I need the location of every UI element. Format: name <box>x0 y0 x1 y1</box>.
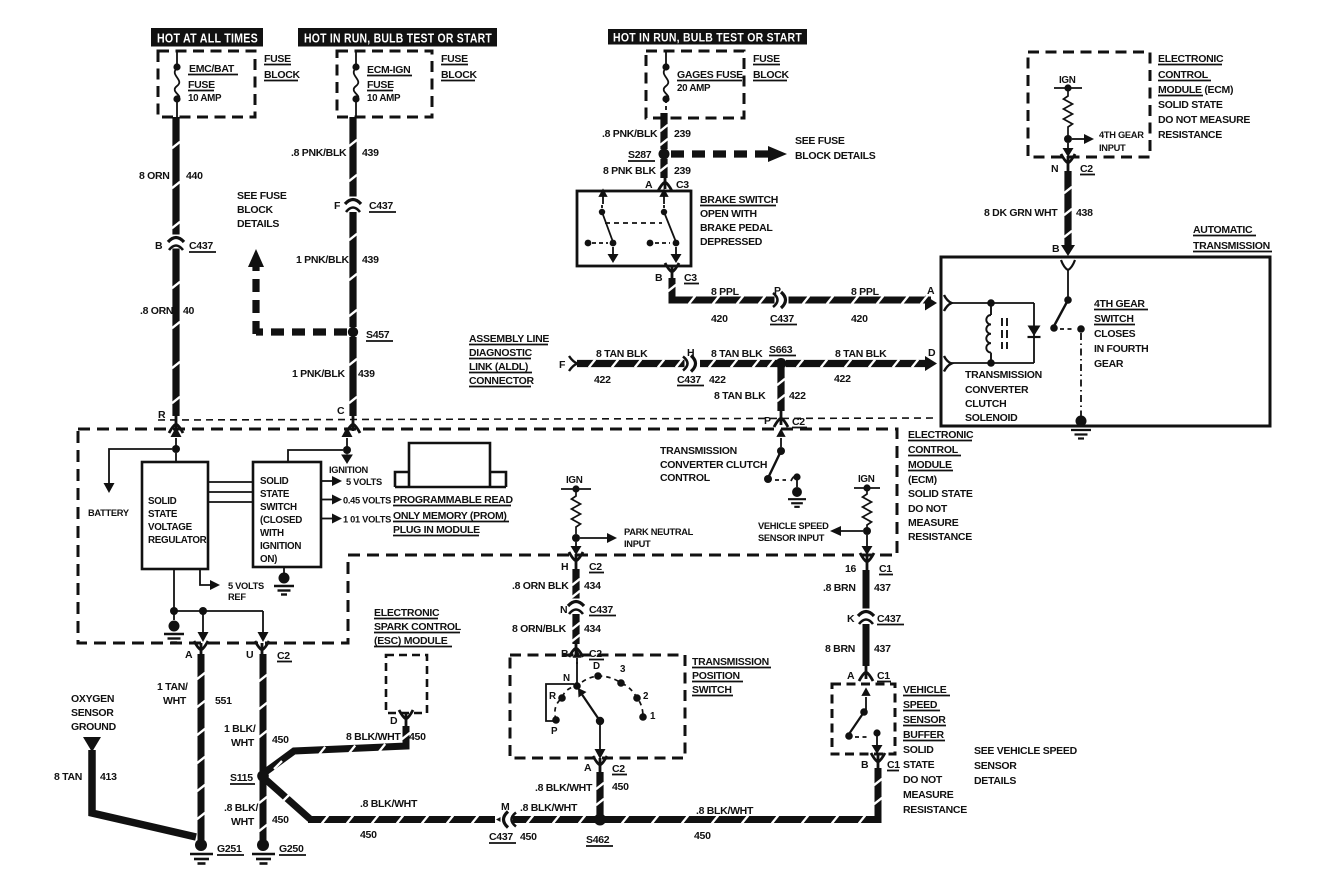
resistor (4th gear pull-up) <box>1064 88 1073 136</box>
wire 450 bottom run right <box>604 768 878 820</box>
svg-text:TRANSMISSION: TRANSMISSION <box>660 445 737 457</box>
fuse block 1 dashed box <box>158 51 255 117</box>
svg-text:TRANSMISSION: TRANSMISSION <box>965 369 1042 381</box>
svg-text:GEAR: GEAR <box>1094 358 1124 370</box>
svg-text:IGN: IGN <box>1059 75 1076 86</box>
svg-text:DETAILS: DETAILS <box>237 218 279 230</box>
svg-text:CONTROL: CONTROL <box>1158 69 1209 81</box>
svg-text:HOT AT ALL TIMES: HOT AT ALL TIMES <box>157 32 258 46</box>
svg-text:IN FOURTH: IN FOURTH <box>1094 343 1148 355</box>
output arrow 1.01 volts <box>321 518 334 520</box>
svg-text:239: 239 <box>674 128 691 140</box>
svg-text:WHT: WHT <box>163 695 187 707</box>
fuse block 3 dashed box <box>646 51 744 118</box>
svg-text:439: 439 <box>362 254 379 266</box>
svg-text:CLUTCH: CLUTCH <box>965 398 1006 410</box>
svg-text:PARK NEUTRAL: PARK NEUTRAL <box>624 527 694 537</box>
wire 439 col2 lower <box>349 337 356 416</box>
connector C437 pin H on wire 422 <box>683 356 699 372</box>
svg-text:CONVERTER: CONVERTER <box>965 384 1029 396</box>
svg-text:440: 440 <box>186 170 203 182</box>
wire 551 1 TAN/WHT <box>198 654 205 840</box>
svg-text:POSITION: POSITION <box>692 670 740 682</box>
svg-text:C1: C1 <box>879 563 892 575</box>
svg-text:C437: C437 <box>589 604 613 616</box>
svg-text:SWITCH: SWITCH <box>1094 313 1134 325</box>
svg-text:P: P <box>551 726 558 737</box>
header bar HOT AT ALL TIMES <box>151 28 263 47</box>
svg-text:FUSE: FUSE <box>264 53 291 65</box>
svg-text:U: U <box>246 649 253 661</box>
svg-text:SOLENOID: SOLENOID <box>965 412 1018 424</box>
wire 239 from gages fuse <box>660 113 667 149</box>
svg-text:A: A <box>645 179 653 191</box>
svg-text:BLOCK DETAILS: BLOCK DETAILS <box>795 150 876 162</box>
automatic transmission box <box>941 257 1270 426</box>
svg-text:422: 422 <box>594 374 611 386</box>
wire 422 vertical from S663 <box>777 368 784 411</box>
svg-text:VEHICLE SPEED: VEHICLE SPEED <box>758 521 829 531</box>
splice S287 <box>659 149 670 160</box>
wire hatch marks <box>172 125 1072 831</box>
svg-text:C437: C437 <box>189 240 213 252</box>
TPS entry arrow <box>576 658 578 664</box>
svg-text:STATE: STATE <box>903 759 935 771</box>
svg-text:1: 1 <box>650 711 656 722</box>
svg-text:MEASURE: MEASURE <box>908 517 959 529</box>
svg-text:BLOCK: BLOCK <box>237 204 274 216</box>
wire 413 8 TAN <box>92 750 196 837</box>
brake switch left pole <box>592 196 613 258</box>
wire to A and C2 pins <box>174 610 263 612</box>
svg-text:420: 420 <box>851 313 868 325</box>
svg-text:10 AMP: 10 AMP <box>367 93 401 104</box>
wire 420 8 PPL <box>672 278 931 300</box>
svg-text:450: 450 <box>520 831 537 843</box>
svg-text:ELECTRONIC: ELECTRONIC <box>908 429 974 441</box>
fuse ECM-IGN <box>354 51 359 117</box>
P-N bracket wire <box>546 684 574 721</box>
wire 450 1 BLK/WHT from C2 <box>260 654 267 840</box>
svg-text:SENSOR: SENSOR <box>71 707 114 719</box>
svg-text:.8 ORN: .8 ORN <box>140 305 173 317</box>
connector C437 pin N <box>568 599 584 615</box>
wires regulator to switch <box>208 482 253 502</box>
svg-text:EMC/BAT: EMC/BAT <box>189 63 235 75</box>
connector C437 pin B on wire 440 <box>168 235 184 251</box>
svg-text:R: R <box>549 691 556 702</box>
svg-text:G250: G250 <box>279 843 304 855</box>
svg-text:HOT IN RUN, BULB TEST OR START: HOT IN RUN, BULB TEST OR START <box>304 32 492 46</box>
svg-text:450: 450 <box>409 731 426 743</box>
svg-text:B: B <box>655 272 663 284</box>
voltage regulator box <box>142 462 208 569</box>
svg-text:S462: S462 <box>586 834 610 846</box>
wire 437 lower 8 BRN <box>863 624 870 666</box>
node R entry arrow <box>175 438 177 448</box>
svg-text:B: B <box>861 759 869 771</box>
svg-text:DIAGNOSTIC: DIAGNOSTIC <box>469 347 533 359</box>
splice S663 <box>776 358 787 369</box>
svg-text:OXYGEN: OXYGEN <box>71 693 114 705</box>
svg-text:WHT: WHT <box>231 816 255 828</box>
svg-text:FUSE: FUSE <box>367 79 394 91</box>
B entry terminal inside box <box>1061 260 1075 270</box>
svg-text:SWITCH: SWITCH <box>260 502 297 513</box>
svg-text:A: A <box>584 762 592 774</box>
splice S115 <box>257 770 269 782</box>
svg-text:IGNITION: IGNITION <box>329 465 369 475</box>
svg-text:422: 422 <box>834 373 851 385</box>
wire 438 8 DK GRN WHT <box>1064 171 1071 248</box>
svg-text:CONTROL: CONTROL <box>660 472 711 484</box>
fuse GAGES <box>664 51 669 110</box>
svg-text:439: 439 <box>358 368 375 380</box>
svg-text:P: P <box>764 415 771 427</box>
svg-text:8 BRN: 8 BRN <box>825 643 855 655</box>
svg-text:N: N <box>563 673 570 684</box>
svg-text:B: B <box>155 240 163 252</box>
wire 450 bottom run left <box>308 816 495 823</box>
solenoid coil <box>986 305 991 361</box>
wire 422 8 TAN BLK mid <box>700 360 777 367</box>
svg-text:BLOCK: BLOCK <box>753 69 790 81</box>
svg-text:F: F <box>334 200 341 212</box>
brake switch box <box>577 191 691 266</box>
svg-text:1 PNK/BLK: 1 PNK/BLK <box>296 254 349 266</box>
svg-text:C1: C1 <box>877 670 890 682</box>
wire 439 col2 upper <box>349 117 356 199</box>
resistor (park/neutral pull-up) <box>572 489 581 534</box>
wire 439 col2 mid <box>349 212 356 327</box>
svg-text:(CLOSED: (CLOSED <box>260 515 302 526</box>
wire 434 lower 8 ORN/BLK <box>572 614 579 644</box>
svg-text:DO NOT: DO NOT <box>908 503 948 515</box>
svg-text:B: B <box>1052 243 1060 255</box>
svg-text:G251: G251 <box>217 843 242 855</box>
arrow down to N pin <box>1067 143 1069 150</box>
ECM dashed outline <box>78 429 897 643</box>
svg-text:DEPRESSED: DEPRESSED <box>700 236 763 248</box>
splice S462 <box>594 814 606 826</box>
svg-text:437: 437 <box>874 643 891 655</box>
svg-text:RESISTANCE: RESISTANCE <box>908 531 972 543</box>
connector C437 pin M with arrow <box>496 813 508 826</box>
connector C437 pin F <box>345 197 361 213</box>
svg-text:4TH GEAR: 4TH GEAR <box>1099 130 1144 140</box>
svg-text:N: N <box>560 604 567 616</box>
output arrow 0.45 volts <box>321 499 334 501</box>
svg-text:C437: C437 <box>877 613 901 625</box>
connector C437 pin P on wire 420 <box>773 292 789 308</box>
svg-text:434: 434 <box>584 623 601 635</box>
TPS contacts <box>573 682 581 690</box>
TPS rotor <box>596 717 604 725</box>
svg-text:434: 434 <box>584 580 601 592</box>
svg-text:.8 BLK/WHT: .8 BLK/WHT <box>696 805 754 817</box>
header bar 3 HOT IN RUN <box>608 29 807 45</box>
svg-text:4TH GEAR: 4TH GEAR <box>1094 298 1145 310</box>
svg-text:K: K <box>847 613 855 625</box>
svg-text:SOLID: SOLID <box>903 744 934 756</box>
wire 422 8 TAN BLK left <box>577 360 687 367</box>
svg-text:MODULE (ECM): MODULE (ECM) <box>1158 84 1233 96</box>
svg-text:BUFFER: BUFFER <box>903 729 944 741</box>
svg-text:C2: C2 <box>612 763 625 775</box>
svg-text:WHT: WHT <box>231 737 255 749</box>
svg-text:AUTOMATIC: AUTOMATIC <box>1193 224 1253 236</box>
svg-text:REF: REF <box>228 592 246 602</box>
svg-text:551: 551 <box>215 695 232 707</box>
svg-text:422: 422 <box>709 374 726 386</box>
svg-text:D: D <box>390 715 398 727</box>
svg-text:C2: C2 <box>277 650 290 662</box>
svg-text:450: 450 <box>272 734 289 746</box>
svg-text:.8 BRN: .8 BRN <box>823 582 856 594</box>
connector C437 pin K <box>858 609 874 625</box>
svg-text:IGN: IGN <box>566 475 583 486</box>
TCC solenoid <box>951 302 1034 304</box>
transmission position switch box <box>510 655 685 758</box>
svg-text:ECM-IGN: ECM-IGN <box>367 64 410 76</box>
arrow park neutral input <box>580 537 608 539</box>
svg-text:.8 ORN BLK: .8 ORN BLK <box>512 580 569 592</box>
wire 450 from ESC to S115 <box>264 726 406 773</box>
svg-text:SOLID: SOLID <box>148 496 177 507</box>
wire 440 8 ORN vertical <box>172 117 179 416</box>
svg-text:S115: S115 <box>230 772 253 784</box>
wire 239 lower <box>660 159 667 178</box>
svg-text:MEASURE: MEASURE <box>903 789 954 801</box>
wire 422 8 TAN BLK right <box>786 360 925 367</box>
svg-text:PROGRAMMABLE READ: PROGRAMMABLE READ <box>393 494 513 506</box>
regulator ground stub <box>173 569 175 611</box>
VSS buffer switch <box>865 697 867 712</box>
svg-text:C3: C3 <box>676 179 689 191</box>
svg-text:8 PNK BLK: 8 PNK BLK <box>603 165 656 177</box>
svg-text:C437: C437 <box>489 831 513 843</box>
svg-text:SOLID STATE: SOLID STATE <box>1158 99 1223 111</box>
arrow down to 16 pin <box>866 535 868 549</box>
svg-text:A: A <box>927 285 935 297</box>
svg-text:H: H <box>687 347 694 359</box>
svg-text:REGULATOR: REGULATOR <box>148 535 207 546</box>
arrow vehicle speed sensor input <box>840 530 863 532</box>
svg-text:INPUT: INPUT <box>1099 143 1126 153</box>
svg-text:8 TAN BLK: 8 TAN BLK <box>596 348 648 360</box>
svg-text:BLOCK: BLOCK <box>264 69 301 81</box>
svg-text:1 TAN/: 1 TAN/ <box>157 681 188 693</box>
svg-text:8 PPL: 8 PPL <box>851 286 880 298</box>
svg-text:ELECTRONIC: ELECTRONIC <box>374 607 440 619</box>
4th gear switch to ground dash-dot wire <box>1080 333 1082 416</box>
switch box ground <box>283 567 285 573</box>
arrow down to H pin <box>575 542 577 549</box>
svg-text:8 PPL: 8 PPL <box>711 286 740 298</box>
svg-text:C3: C3 <box>684 272 697 284</box>
svg-text:TRANSMISSION: TRANSMISSION <box>692 656 769 668</box>
solenoid core lines <box>1002 318 1007 349</box>
svg-text:VEHICLE: VEHICLE <box>903 684 947 696</box>
svg-text:D: D <box>593 661 600 672</box>
svg-text:420: 420 <box>711 313 728 325</box>
svg-text:A: A <box>847 670 855 682</box>
svg-text:2: 2 <box>643 691 649 702</box>
svg-text:N: N <box>1051 163 1058 175</box>
svg-text:INPUT: INPUT <box>624 539 651 549</box>
svg-text:8 TAN: 8 TAN <box>54 771 82 783</box>
svg-text:439: 439 <box>362 147 379 159</box>
svg-text:.8 BLK/WHT: .8 BLK/WHT <box>535 782 593 794</box>
svg-text:BRAKE PEDAL: BRAKE PEDAL <box>700 222 773 234</box>
svg-text:TRANSMISSION: TRANSMISSION <box>1193 240 1270 252</box>
svg-text:8 ORN/BLK: 8 ORN/BLK <box>512 623 567 635</box>
svg-text:5 VOLTS: 5 VOLTS <box>228 581 264 591</box>
splice S457 <box>348 327 358 337</box>
wire to N contact <box>576 662 578 684</box>
svg-text:437: 437 <box>874 582 891 594</box>
solid state switch box <box>253 462 321 567</box>
TPS contact arc dashed <box>555 676 643 720</box>
svg-text:.8 PNK/BLK: .8 PNK/BLK <box>602 128 658 140</box>
svg-text:C437: C437 <box>369 200 393 212</box>
regulator 5 volts ref stub <box>200 569 212 585</box>
svg-text:.8 BLK/WHT: .8 BLK/WHT <box>360 798 418 810</box>
svg-text:DO NOT: DO NOT <box>903 774 943 786</box>
resistor (VSS pull-up) <box>863 488 872 530</box>
svg-text:CONVERTER CLUTCH: CONVERTER CLUTCH <box>660 459 767 471</box>
svg-text:C437: C437 <box>770 313 794 325</box>
svg-text:3: 3 <box>620 664 626 675</box>
svg-text:ELECTRONIC: ELECTRONIC <box>1158 53 1224 65</box>
svg-text:C1: C1 <box>887 759 900 771</box>
wire 450 below TPS <box>596 772 603 816</box>
rotor output wire <box>599 721 601 752</box>
svg-text:SEE FUSE: SEE FUSE <box>237 190 287 202</box>
svg-text:C437: C437 <box>677 374 701 386</box>
svg-text:FUSE: FUSE <box>441 53 468 65</box>
svg-text:ASSEMBLY LINE: ASSEMBLY LINE <box>469 333 549 345</box>
svg-text:SOLID STATE: SOLID STATE <box>908 488 973 500</box>
output arrow 5 volts <box>321 480 334 482</box>
svg-text:1 01 VOLTS: 1 01 VOLTS <box>343 515 391 525</box>
ground (4th gear switch) <box>1076 416 1087 427</box>
ground (regulator) <box>164 621 184 643</box>
svg-text:D: D <box>928 347 936 359</box>
svg-text:GROUND: GROUND <box>71 721 117 733</box>
vehicle speed sensor buffer box <box>832 684 895 754</box>
svg-text:STATE: STATE <box>260 489 290 500</box>
svg-text:0.45 VOLTS: 0.45 VOLTS <box>343 496 391 506</box>
svg-text:H: H <box>561 561 568 573</box>
svg-text:.8 PNK/BLK: .8 PNK/BLK <box>291 147 347 159</box>
svg-text:413: 413 <box>100 771 117 783</box>
svg-text:FUSE: FUSE <box>753 53 780 65</box>
svg-text:SENSOR INPUT: SENSOR INPUT <box>758 533 825 543</box>
svg-text:S663: S663 <box>769 344 793 356</box>
oxygen sensor down arrow <box>83 737 101 752</box>
svg-text:CONNECTOR: CONNECTOR <box>469 375 534 387</box>
ignition arrow <box>342 454 352 463</box>
svg-text:CLOSES: CLOSES <box>1094 328 1136 340</box>
svg-text:IGNITION: IGNITION <box>260 541 301 552</box>
svg-text:C2: C2 <box>589 561 602 573</box>
fuse EMC/BAT <box>175 51 180 117</box>
svg-text:10 AMP: 10 AMP <box>188 93 222 104</box>
svg-text:SENSOR: SENSOR <box>974 760 1017 772</box>
svg-text:SOLID: SOLID <box>260 476 289 487</box>
svg-text:SPARK CONTROL: SPARK CONTROL <box>374 621 462 633</box>
svg-text:SEE FUSE: SEE FUSE <box>795 135 845 147</box>
svg-text:1 PNK/BLK: 1 PNK/BLK <box>292 368 345 380</box>
fuse block 2 dashed box <box>337 51 432 117</box>
ESC module dashed box <box>386 655 427 713</box>
svg-text:DETAILS: DETAILS <box>974 775 1016 787</box>
brake switch right pole <box>655 196 676 258</box>
wire 434 upper .8 ORN BLK <box>572 569 579 600</box>
4th gear switch <box>1067 270 1069 299</box>
svg-text:450: 450 <box>360 829 377 841</box>
svg-text:450: 450 <box>272 814 289 826</box>
svg-text:VOLTAGE: VOLTAGE <box>148 522 193 533</box>
svg-text:SWITCH: SWITCH <box>692 684 732 696</box>
wire 450 bottom run mid <box>513 816 597 823</box>
PROM module outline <box>395 443 506 487</box>
svg-text:8 BLK/WHT: 8 BLK/WHT <box>346 731 401 743</box>
svg-text:8 DK GRN WHT: 8 DK GRN WHT <box>984 207 1058 219</box>
svg-text:ON): ON) <box>260 554 277 565</box>
svg-text:BRAKE SWITCH: BRAKE SWITCH <box>700 194 778 206</box>
TCC switch inside ECM <box>780 438 782 447</box>
svg-text:8 ORN: 8 ORN <box>139 170 170 182</box>
ECM 4th gear dashed box (top right) <box>1028 52 1150 157</box>
svg-text:8 TAN BLK: 8 TAN BLK <box>835 348 887 360</box>
svg-text:.8 BLK/WHT: .8 BLK/WHT <box>520 802 578 814</box>
svg-text:CONTROL: CONTROL <box>908 444 959 456</box>
svg-text:SPEED: SPEED <box>903 699 938 711</box>
svg-text:.8 BLK/: .8 BLK/ <box>224 802 258 814</box>
header bar 2 HOT IN RUN <box>298 28 497 47</box>
svg-text:RESISTANCE: RESISTANCE <box>903 804 967 816</box>
svg-text:(ESC) MODULE: (ESC) MODULE <box>374 635 448 647</box>
wire S115 to bottom run <box>264 778 310 819</box>
wire C to switch box <box>288 450 343 462</box>
svg-text:450: 450 <box>694 830 711 842</box>
svg-text:20 AMP: 20 AMP <box>677 83 711 94</box>
svg-text:F: F <box>559 359 566 371</box>
svg-text:5 VOLTS: 5 VOLTS <box>346 477 382 487</box>
svg-text:SEE VEHICLE SPEED: SEE VEHICLE SPEED <box>974 745 1078 757</box>
svg-text:GAGES FUSE: GAGES FUSE <box>677 69 743 81</box>
svg-text:239: 239 <box>674 165 691 177</box>
svg-text:STATE: STATE <box>148 509 178 520</box>
svg-text:422: 422 <box>789 390 806 402</box>
svg-text:MODULE: MODULE <box>908 459 952 471</box>
svg-text:LINK (ALDL): LINK (ALDL) <box>469 361 528 373</box>
svg-text:C: C <box>337 405 345 417</box>
node C entry arrow <box>346 438 348 450</box>
ground (TCC) <box>788 487 806 507</box>
svg-text:WITH: WITH <box>260 528 284 539</box>
dashed arrow wire to fuse block details (right) <box>671 150 768 157</box>
svg-text:PLUG IN MODULE: PLUG IN MODULE <box>393 524 480 536</box>
svg-text:8 TAN BLK: 8 TAN BLK <box>711 348 763 360</box>
thin dashed seam line <box>158 418 936 420</box>
ground (switch) <box>274 573 294 595</box>
svg-text:M: M <box>501 801 510 813</box>
svg-text:C2: C2 <box>1080 163 1093 175</box>
svg-text:ONLY MEMORY (PROM): ONLY MEMORY (PROM) <box>393 510 507 522</box>
